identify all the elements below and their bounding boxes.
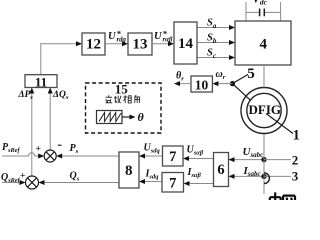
arrow omega r into block 10 (212, 81, 218, 86)
svg-text:12: 12 (86, 36, 101, 52)
arrow dPs into block 11 (29, 88, 34, 94)
label Sb (207, 32, 217, 45)
label Isabc (243, 165, 261, 178)
svg-text:3: 3 (292, 168, 299, 183)
wire Isabc from dot to block 6 (234, 175, 264, 177)
arrow theta r pointing left (174, 81, 180, 86)
svg-text:7: 7 (169, 175, 176, 191)
wire Usdq from 7a to 8 (145, 155, 163, 157)
leader line for label 5 (232, 74, 248, 83)
wire dc-link right vertical (280, 2, 282, 21)
label 1 (293, 127, 300, 143)
arrow Ps into P summer (56, 154, 62, 159)
svg-text:13: 13 (133, 36, 148, 52)
arrow Usdq into block 8 (139, 154, 145, 159)
block 12 (82, 33, 105, 55)
label Vdc (253, 0, 268, 7)
wire dPs stem from Q summer up to block 11 (31, 93, 33, 176)
svg-text:6: 6 (217, 162, 224, 178)
wire sawtooth to theta (122, 116, 130, 118)
arrow into block 13 (122, 41, 128, 46)
wire 12 to 13 (105, 43, 123, 45)
wire tacho slant to DFIG (232, 84, 250, 101)
svg-text:2: 2 (292, 152, 299, 167)
block 4 converter (235, 21, 291, 65)
wire Isdq from 7b to 8 (145, 181, 163, 183)
label Qs (70, 170, 80, 182)
label minus at P summer (58, 144, 62, 146)
arrow Qs into Q summer (39, 180, 45, 185)
wire Isab from 6 to 7b (189, 183, 214, 185)
dashed box 15 virtual phase angle (86, 83, 162, 133)
label PsRef (2, 142, 21, 154)
arrow into block 14 (168, 41, 174, 46)
machine DFIG outer circle (241, 88, 287, 134)
wire 3 to grid (264, 175, 291, 177)
node I junction dot (261, 174, 266, 179)
arrow QsRef into Q summer (20, 180, 26, 185)
svg-text:+: + (20, 172, 25, 182)
wire omega r to block 10 (218, 83, 232, 85)
wire DFIG slant to terminal 1 (266, 114, 293, 134)
wire block 11 top to block 12 (41, 44, 77, 75)
wire dc-link horizontal left (246, 11, 259, 13)
label theta (138, 110, 145, 124)
label Usdq (144, 142, 161, 154)
arrow Usab into block 7a (183, 156, 189, 161)
svg-text:10: 10 (195, 77, 209, 92)
arrow Isdq into block 8 (139, 179, 145, 184)
wire 2 to grid (264, 159, 291, 161)
arrow Usabc into block 6 (229, 157, 235, 162)
label 虚拟相角 (106, 95, 140, 103)
summer Q circle with X (26, 176, 39, 189)
wire QsRef (2, 182, 20, 184)
wire dc-link horizontal right (265, 11, 281, 13)
current transformer loop at I tap (264, 173, 269, 184)
arrow to theta (130, 115, 136, 120)
label Isdq (145, 168, 160, 180)
block 7a (163, 146, 184, 166)
label Sc (207, 47, 216, 60)
wire Usabc from dot to block 6 (234, 159, 264, 161)
svg-text:15: 15 (115, 81, 129, 96)
arrow Sc into block 4 (229, 55, 235, 60)
svg-text:θ: θ (138, 110, 145, 124)
svg-text:4: 4 (259, 36, 267, 52)
wire 13 to 14 (152, 43, 169, 45)
svg-text:DFIG: DFIG (249, 102, 282, 117)
svg-text:1: 1 (293, 127, 300, 143)
label plus at P summer (36, 145, 41, 155)
wire Sa (197, 27, 230, 29)
wire dQs stem from P summer up to block 11 (49, 93, 51, 150)
label 5 (247, 66, 255, 82)
label Usab (187, 145, 204, 157)
svg-text:14: 14 (178, 36, 194, 52)
label Ps (70, 143, 79, 155)
block 13 (128, 33, 152, 55)
capacitor C dc-link plates (260, 9, 265, 17)
machine DFIG inner circle (247, 93, 281, 127)
wire Qs from block 8 (44, 182, 119, 184)
label Isab (187, 167, 202, 179)
arrow Isab into block 7b (184, 181, 190, 186)
label QsRef (1, 172, 21, 184)
wire Sc (197, 57, 230, 59)
arrow Sa into block 4 (229, 25, 235, 30)
label 3 (292, 168, 299, 183)
svg-text:8: 8 (125, 163, 133, 179)
label theta r (176, 70, 184, 82)
label dQs (52, 90, 69, 101)
label 2 (292, 152, 299, 167)
svg-text:11: 11 (35, 74, 47, 89)
arrow PsRef into P summer (38, 154, 44, 159)
wire Usab from 6 to 7a (189, 158, 214, 160)
block 10 (191, 76, 212, 92)
label U*rab (154, 29, 173, 44)
sawtooth block (97, 111, 123, 124)
arrow into block 12 (76, 41, 82, 46)
wire DFIG stator down to grid (263, 134, 265, 195)
arrow Sb into block 4 (229, 40, 235, 45)
wire Ps from block 8 (62, 155, 119, 157)
block 8 (119, 152, 139, 188)
label omega r (216, 69, 226, 81)
label plus at Q summer (20, 172, 25, 182)
wire block4 to DFIG rotor (263, 65, 265, 88)
summer P circle with X (44, 150, 56, 162)
block 11 (25, 74, 57, 89)
node U junction dot (261, 157, 266, 162)
block 7b (162, 173, 184, 193)
label grid 电网 (270, 192, 295, 200)
svg-text:7: 7 (169, 149, 176, 165)
block 6 (214, 153, 229, 187)
label DFIG (249, 102, 282, 117)
wire dc-link left vertical (245, 2, 247, 21)
svg-text:5: 5 (247, 66, 255, 82)
arrow Isabc into block 6 (229, 174, 235, 179)
block 14 (174, 22, 197, 64)
wire PsRef with hop over dPs stem (2, 153, 39, 156)
wire theta r out of block 10 (180, 83, 191, 85)
label 15 (115, 81, 129, 96)
arrow dQs into block 11 (48, 88, 53, 94)
label Usabc (243, 146, 264, 159)
label Sa (207, 17, 217, 30)
label dPs (18, 90, 34, 101)
node tacho dot (230, 81, 235, 86)
label U*rdq (108, 29, 127, 44)
wire Sb (197, 42, 230, 44)
svg-text:+: + (36, 145, 41, 155)
